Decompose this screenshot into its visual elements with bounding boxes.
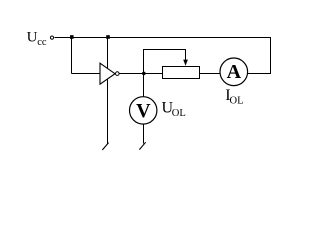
terminal Ucc (open circle) bbox=[50, 36, 53, 39]
svg-text:cc: cc bbox=[37, 37, 47, 48]
op-amp inverter triangle bbox=[100, 63, 115, 84]
wire inverter output to resistor bbox=[120, 73, 163, 75]
junction dot 2 bbox=[106, 35, 110, 39]
ground (left slash) bbox=[102, 143, 108, 150]
junction dot 1 bbox=[70, 35, 74, 39]
svg-text:U: U bbox=[27, 30, 38, 46]
wire top supply rail bbox=[55, 37, 272, 39]
resistor R (adjustable load) bbox=[163, 67, 200, 79]
ground (right slash) bbox=[139, 142, 145, 149]
voltmeter V bbox=[130, 97, 157, 124]
wire voltmeter down to ground bbox=[143, 124, 145, 144]
wiper arrowhead bbox=[183, 60, 188, 66]
node Ucc label bbox=[27, 30, 47, 48]
wire from junction 2 down through gate to ground bbox=[107, 38, 109, 145]
svg-text:A: A bbox=[227, 61, 242, 83]
svg-text:OL: OL bbox=[230, 96, 244, 107]
node output junction dot bbox=[142, 72, 146, 76]
ammeter A bbox=[220, 58, 248, 86]
label UOL bbox=[162, 100, 186, 120]
wire from junction 1 down and right to inverter input bbox=[72, 38, 101, 74]
wire resistor to ammeter bbox=[200, 73, 221, 75]
wire right side drop to ammeter bbox=[248, 38, 272, 74]
svg-text:V: V bbox=[136, 100, 151, 122]
svg-text:OL: OL bbox=[172, 108, 186, 119]
wire junction down to voltmeter bbox=[143, 74, 145, 98]
label IOL bbox=[225, 87, 243, 107]
inverter output bubble bbox=[116, 72, 120, 76]
wire wiper feedback loop bbox=[144, 50, 186, 74]
